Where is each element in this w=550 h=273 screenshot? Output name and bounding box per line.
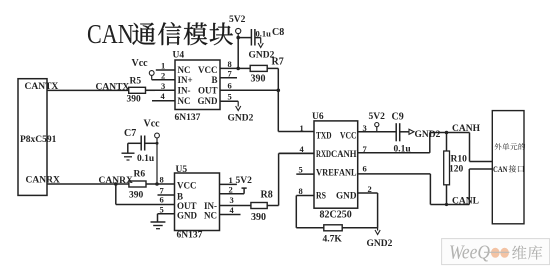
svg-text:390: 390: [251, 74, 266, 85]
svg-text:5V2: 5V2: [236, 176, 253, 186]
svg-text:CANH: CANH: [452, 124, 481, 134]
U6 pin 7 wire: [358, 133, 430, 155]
wire 5V2 to C8: [238, 37, 251, 39]
svg-text:VCC: VCC: [340, 130, 357, 140]
svg-text:C7: C7: [124, 128, 136, 139]
svg-text:VCC: VCC: [198, 65, 218, 75]
watermark oo dots: [491, 248, 500, 258]
U4 pin 4: [152, 91, 175, 101]
svg-text:CANTX: CANTX: [25, 82, 59, 92]
svg-text:CAN: CAN: [87, 20, 134, 50]
junction U4 pin8 / R7: [236, 67, 240, 71]
svg-text:RXD: RXD: [316, 149, 331, 159]
svg-text:4: 4: [300, 144, 305, 154]
svg-text:1: 1: [300, 123, 304, 133]
svg-text:CANH: CANH: [331, 149, 357, 159]
svg-text:5: 5: [160, 204, 164, 214]
label 接口: [509, 165, 524, 172]
svg-text:390: 390: [127, 95, 142, 105]
svg-text:R5: R5: [130, 77, 142, 87]
junction OUT/R7: [277, 89, 281, 93]
svg-text:NC: NC: [178, 65, 191, 75]
svg-text:6: 6: [363, 164, 367, 174]
svg-text:1: 1: [229, 175, 233, 185]
ground arrow GND2 (C9): [409, 129, 441, 140]
svg-text:5V2: 5V2: [229, 15, 246, 25]
svg-text:2: 2: [229, 185, 233, 195]
svg-text:6: 6: [228, 81, 232, 91]
op-amp U5 box: [175, 173, 220, 231]
svg-text:Vcc: Vcc: [144, 119, 161, 130]
U4 pin 8 wire: [220, 59, 238, 69]
U6 pin 6 wire: [358, 164, 431, 205]
transceiver U6 box: [314, 121, 358, 208]
svg-text:R8: R8: [261, 190, 273, 201]
capacitor C9: [396, 123, 408, 141]
svg-text:VCC: VCC: [177, 181, 197, 191]
U6 pin labels right: [331, 130, 357, 200]
svg-text:1: 1: [161, 61, 165, 71]
label 外单元的: [495, 143, 526, 150]
ground (U5 pin5): [151, 222, 166, 229]
U5 pin 5 + ground: [158, 204, 175, 221]
svg-text:VREF: VREF: [316, 168, 339, 178]
watermark panel: [442, 239, 550, 265]
svg-text:B: B: [211, 75, 217, 85]
U4 pin 1: [156, 61, 175, 71]
title 通信模块: [132, 22, 233, 45]
svg-text:GND: GND: [336, 190, 357, 200]
svg-text:8: 8: [299, 186, 303, 196]
U5 pin 3 wire: [220, 195, 251, 206]
svg-text:B: B: [177, 192, 183, 202]
svg-text:82C250: 82C250: [320, 210, 352, 221]
svg-text:4: 4: [161, 91, 166, 101]
resistor R6: [129, 181, 175, 187]
U6 pin 8 wire: [296, 186, 314, 228]
resistor R10: [444, 133, 450, 207]
wire to U6 pin1: [278, 131, 314, 133]
svg-text:0.1u: 0.1u: [137, 154, 155, 164]
ground GND2 (U6 pin2): [367, 228, 393, 249]
svg-text:IN+: IN+: [178, 75, 193, 85]
U4 pin 7 stub: [220, 69, 237, 79]
resistor R5: [129, 87, 155, 93]
svg-text:Vcc: Vcc: [132, 58, 149, 69]
svg-text:NC: NC: [178, 96, 191, 106]
wire CANL: [430, 169, 492, 205]
svg-text:IN-: IN-: [178, 86, 191, 96]
svg-text:4.7K: 4.7K: [323, 235, 343, 245]
svg-text:GND: GND: [177, 210, 198, 220]
wire CANTX: [47, 89, 129, 91]
svg-text:RS: RS: [316, 190, 326, 200]
microcontroller P8xC591 box: [18, 79, 47, 196]
U6 pin 3 wire: [358, 123, 396, 133]
svg-text:6N137: 6N137: [177, 231, 203, 241]
external CAN interface box: [492, 111, 524, 224]
U5 pin 4 stub: [220, 205, 241, 215]
U5 pin labels right: [204, 201, 217, 220]
svg-text:U4: U4: [173, 51, 185, 61]
svg-text:2: 2: [368, 184, 372, 194]
power 5V2 (U5): [236, 176, 253, 194]
U5 pin 1 stub: [220, 175, 237, 185]
svg-text:CANRX: CANRX: [26, 175, 60, 185]
svg-text:P8xC591: P8xC591: [20, 135, 57, 145]
svg-text:U6: U6: [312, 112, 324, 122]
svg-text:OUT: OUT: [198, 86, 218, 96]
U4 pin 6 OUT wire: [220, 81, 278, 91]
svg-text:TXD: TXD: [316, 130, 332, 140]
svg-text:4: 4: [230, 205, 235, 215]
svg-text:6N137: 6N137: [175, 113, 201, 123]
svg-text:GND2: GND2: [415, 130, 441, 140]
svg-text:CAN: CAN: [493, 165, 508, 174]
U5 pin 2 wire: [220, 185, 245, 195]
U4 pin 2: [152, 70, 175, 80]
wire CANH: [430, 133, 493, 162]
U4 pin labels right: [198, 65, 219, 106]
U6 pin 2 wire: [358, 184, 378, 228]
wire 5V2 down to U4 pin8: [237, 38, 239, 69]
svg-text:CANTX: CANTX: [96, 83, 130, 93]
U6 pin 5 stub: [296, 165, 314, 175]
svg-text:390: 390: [251, 212, 266, 223]
capacitor C8: [251, 29, 260, 46]
svg-text:0.1u: 0.1u: [256, 29, 272, 39]
power Vcc (U5): [144, 119, 161, 185]
svg-text:C8: C8: [272, 27, 284, 38]
resistor R8: [251, 203, 279, 209]
svg-text:120: 120: [449, 165, 464, 175]
ground GND2 (U4 pin5): [228, 101, 254, 123]
junction CANRX/OUT: [114, 182, 118, 186]
U6 pin labels left: [316, 130, 339, 200]
U5 pin 6 OUT wire: [116, 184, 175, 205]
U6 pin 4 wire: [280, 144, 315, 154]
svg-text:R10: R10: [451, 155, 468, 165]
svg-text:GND2: GND2: [367, 239, 393, 249]
svg-text:5V2: 5V2: [369, 112, 386, 122]
svg-text:5: 5: [228, 92, 232, 102]
svg-text:GND2: GND2: [228, 114, 254, 124]
svg-text:3: 3: [363, 123, 367, 133]
svg-text:R7: R7: [272, 57, 284, 68]
U5 pin labels left: [177, 181, 198, 221]
svg-text:390: 390: [129, 191, 144, 201]
op-amp U4 box: [175, 60, 220, 110]
wire CANRX: [47, 183, 129, 185]
U4 pin labels left: [178, 65, 193, 106]
svg-text:3: 3: [230, 195, 234, 205]
power 5V2 (U6): [369, 112, 386, 132]
wire R7 down to OUT/TXD: [277, 68, 279, 131]
svg-text:NC: NC: [204, 210, 217, 220]
svg-text:C9: C9: [392, 112, 404, 123]
svg-text:8: 8: [160, 174, 164, 184]
junction 5V2/C8: [236, 36, 240, 40]
svg-text:CANL: CANL: [452, 197, 479, 207]
svg-text:2: 2: [161, 70, 165, 80]
power 5V2 (top): [229, 15, 246, 38]
svg-text:GND: GND: [198, 96, 219, 106]
svg-text:ANL: ANL: [339, 168, 357, 178]
capacitor C7: [128, 136, 157, 151]
svg-text:8: 8: [228, 59, 232, 69]
power Vcc (U4): [132, 58, 155, 80]
U5 pin 7 stub: [158, 186, 175, 196]
svg-text:5: 5: [299, 165, 303, 175]
junction CANH/R10: [445, 131, 449, 135]
ground (C7): [122, 143, 135, 160]
junction C7/Vcc: [156, 142, 159, 145]
resistor R7: [238, 65, 278, 71]
svg-text:7: 7: [228, 69, 233, 79]
U4 pin 5 stub: [220, 92, 238, 102]
svg-text:6: 6: [160, 195, 164, 205]
junction R6/Vcc/pin8: [155, 182, 159, 186]
ground GND2 (C8): [249, 38, 275, 61]
wire R8 up to U6 pin4: [278, 153, 280, 205]
U4 pin 3: [146, 81, 176, 91]
svg-text:3: 3: [161, 81, 165, 91]
svg-text:R6: R6: [134, 170, 146, 180]
svg-text:U5: U5: [176, 165, 188, 175]
resistor R9 4.7K: [296, 225, 377, 231]
watermark 维库: [512, 245, 542, 259]
